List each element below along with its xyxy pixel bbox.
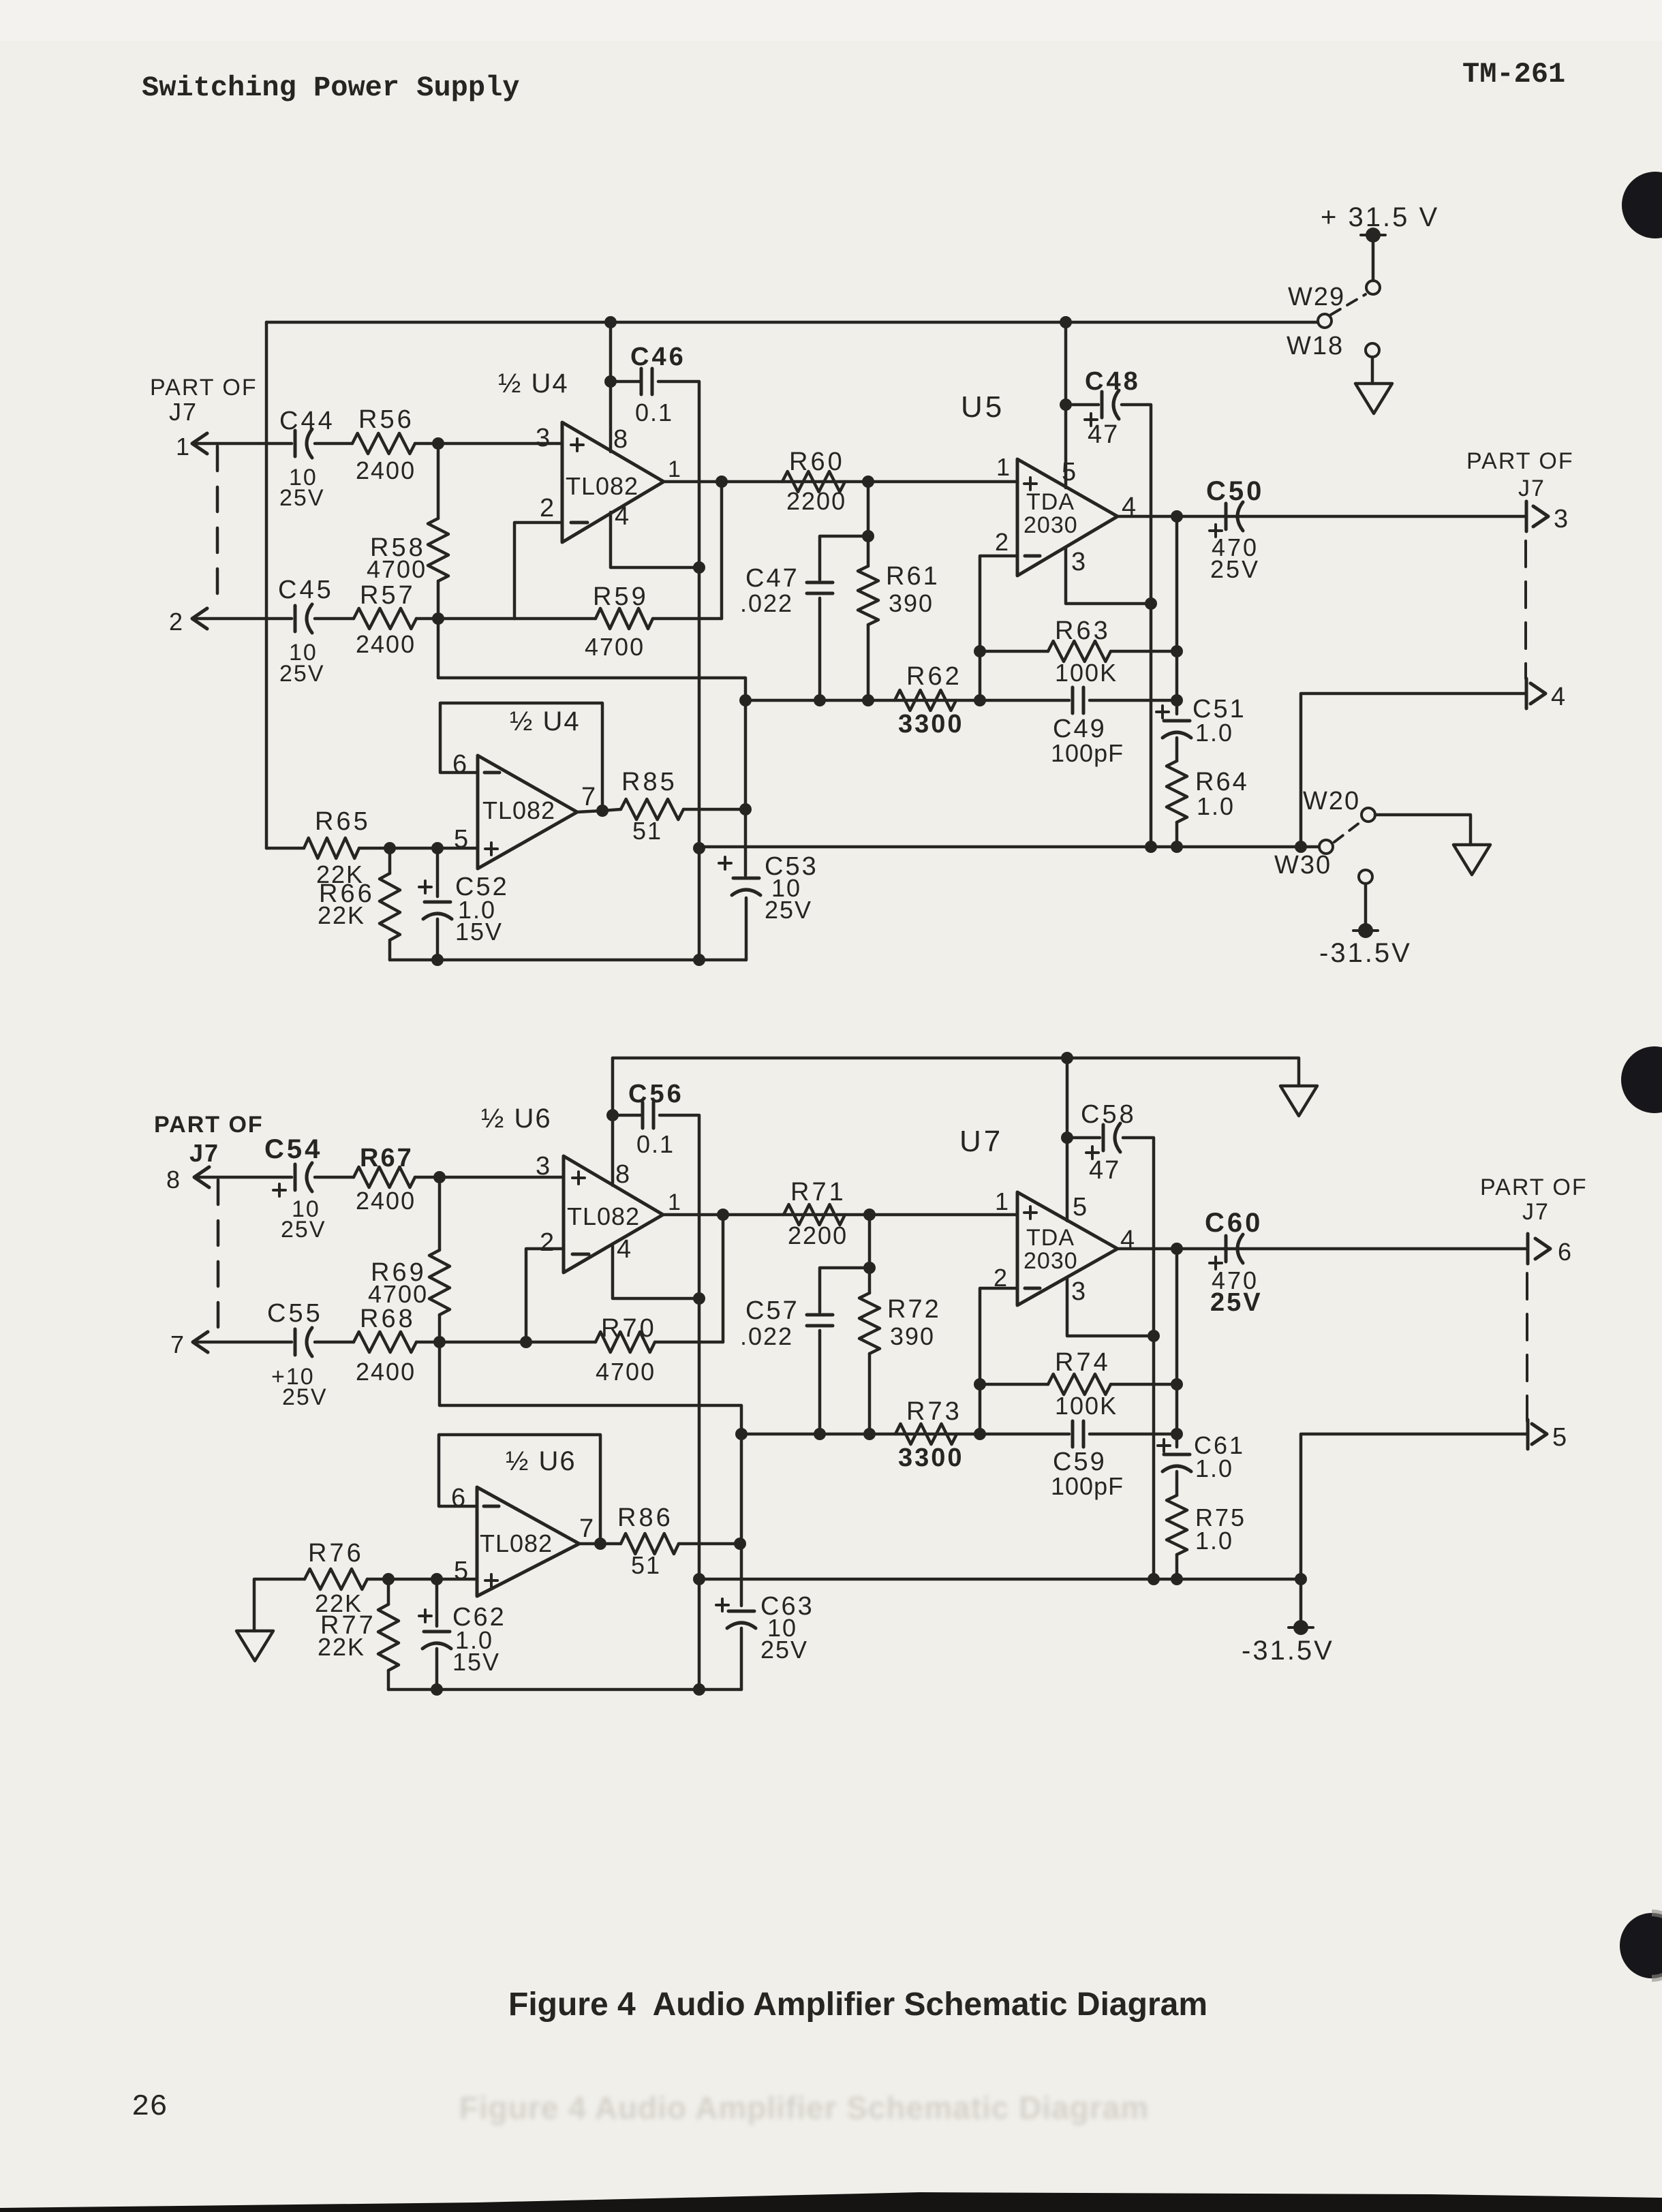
svg-text:6: 6	[451, 1484, 465, 1512]
svg-text:J7: J7	[1518, 476, 1545, 501]
J7 pin 5 connector bar	[1526, 1420, 1530, 1449]
svg-text:2: 2	[995, 528, 1009, 556]
svg-text:C46: C46	[630, 343, 686, 371]
svg-text:2200: 2200	[786, 487, 846, 515]
svg-text:7: 7	[579, 1514, 594, 1543]
svg-text:2: 2	[540, 494, 554, 523]
switch W29 blade (dashed)	[1331, 294, 1366, 315]
svg-text:3: 3	[1071, 1277, 1086, 1306]
wire R86 to C63 branch	[679, 1542, 740, 1546]
junction bypass drop / lower return	[693, 1683, 705, 1696]
resistor R58 (vertical)	[437, 450, 440, 518]
capacitor C60	[1225, 1236, 1228, 1262]
hole punch top	[1622, 172, 1662, 238]
junction R85 / C53 branch	[739, 803, 752, 815]
svg-text:25V: 25V	[1210, 555, 1260, 583]
U4a + input sign	[571, 443, 583, 446]
svg-text:3300: 3300	[898, 1444, 964, 1472]
switch W20 blade (dashed)	[1334, 820, 1363, 842]
resistor R77 (vertical)	[378, 1604, 399, 1670]
junction R76/R77	[382, 1573, 395, 1585]
junction R61 bottom	[862, 694, 874, 706]
junction pin4 / bypass drop	[693, 561, 705, 574]
wire U7 pin2 riser	[980, 1288, 1017, 1434]
wire C47 top lead	[820, 536, 868, 580]
svg-text:R61: R61	[886, 562, 940, 591]
wire U7 pin3 stub	[1067, 1278, 1154, 1336]
resistor R67	[354, 1167, 415, 1187]
J7 pin 4 arrow	[1530, 683, 1545, 704]
wire C44 to R56	[315, 442, 352, 446]
wire R74 right lead	[1111, 1383, 1177, 1386]
wire C63 bottom lead	[740, 1628, 743, 1689]
svg-text:2: 2	[994, 1264, 1007, 1292]
C58 plus sign	[1086, 1151, 1098, 1154]
junction zobel / lower -rail	[1171, 1573, 1183, 1585]
svg-text:TDA: TDA	[1026, 1225, 1075, 1251]
ground below W18	[1355, 384, 1392, 414]
junction output / zobel drop	[1171, 510, 1183, 523]
svg-text:R62: R62	[906, 662, 962, 691]
C51 plus sign	[1156, 711, 1169, 713]
wire lower 0V rail	[613, 1058, 1299, 1086]
ground at R76	[236, 1631, 273, 1661]
wire U5 pin3 stub	[1066, 548, 1151, 604]
J7 pin 4 connector bar	[1525, 679, 1528, 708]
junction R67/R69/pin3	[433, 1171, 446, 1183]
ground at lower rail right	[1280, 1086, 1317, 1116]
wire top +rail	[266, 321, 1318, 324]
svg-text:3: 3	[536, 424, 550, 452]
junction C48 drop at -rail	[1145, 841, 1157, 853]
wire R57 to pin2 riser	[416, 617, 514, 621]
svg-text:R57: R57	[360, 581, 416, 610]
C61 plus sign	[1158, 1444, 1170, 1447]
hole punch bottom	[1620, 1913, 1662, 1978]
wire R76 to U6b pin5	[367, 1578, 477, 1581]
svg-text:1: 1	[995, 1187, 1009, 1215]
wire R63 left lead	[980, 650, 1048, 653]
resistor R72 (vertical)	[868, 1268, 872, 1293]
wire R66 leads	[388, 848, 392, 873]
junction R73/R74/pin2 node	[974, 1428, 986, 1440]
resistor R56	[352, 433, 415, 454]
svg-text:R67: R67	[360, 1144, 414, 1172]
svg-text:.022: .022	[740, 589, 793, 617]
svg-text:51: 51	[631, 1551, 661, 1579]
svg-text:PART OF: PART OF	[1466, 448, 1574, 474]
capacitor C52	[425, 901, 450, 904]
U6a + input sign	[572, 1177, 585, 1179]
capacitor C56	[641, 1102, 645, 1128]
U6b feedback box	[439, 1435, 600, 1541]
wire U6 output to U7 pin1	[663, 1213, 1017, 1217]
wire C63 branch vertical	[740, 1434, 743, 1606]
J7 pin 2 arrow	[192, 608, 207, 629]
svg-text:PART OF: PART OF	[150, 375, 258, 401]
svg-text:0.1: 0.1	[636, 1130, 675, 1158]
hole punch middle	[1621, 1046, 1662, 1113]
U5 - input sign	[1025, 555, 1040, 558]
svg-text:25V: 25V	[765, 896, 812, 924]
wire C56 left lead	[613, 1114, 641, 1117]
junction R63 / output drop	[1171, 645, 1183, 657]
U6b + input sign	[485, 1579, 497, 1582]
junction -rail / J7-4 riser	[1295, 841, 1307, 853]
svg-text:-31.5V: -31.5V	[1242, 1636, 1334, 1666]
resistor R59	[596, 608, 653, 629]
svg-text:.022: .022	[740, 1322, 793, 1350]
junction R68/pin2 riser	[520, 1336, 532, 1348]
svg-text:25V: 25V	[281, 1217, 326, 1243]
wire riser R70 to U6 output	[722, 1215, 725, 1342]
wire C53 bottom lead	[745, 898, 748, 960]
wire R57 node to R59	[514, 617, 596, 621]
svg-text:C56: C56	[628, 1080, 684, 1108]
wire R68 to R70	[416, 1341, 596, 1344]
resistor R60	[782, 471, 845, 492]
svg-text:2030: 2030	[1024, 512, 1078, 538]
svg-text:47: 47	[1088, 420, 1119, 449]
node -31.5V supply terminal (upper)	[1353, 929, 1378, 932]
wire riser to J7 pin 5	[1301, 1434, 1528, 1579]
wire C53 branch vertical	[744, 700, 748, 875]
capacitor C58	[1102, 1125, 1105, 1151]
wire R70 to output riser	[655, 1341, 723, 1344]
svg-text:390: 390	[890, 1322, 935, 1350]
junction pin3 / C48 drop	[1145, 597, 1157, 610]
svg-text:8: 8	[615, 1160, 630, 1189]
wire R76 ground leg	[254, 1579, 305, 1631]
junction pin2 riser / R63	[974, 645, 986, 657]
svg-text:W18: W18	[1287, 332, 1344, 360]
svg-text:3: 3	[1554, 505, 1568, 533]
wire upper -rail	[699, 845, 1318, 849]
junction C48 left node	[1060, 399, 1072, 411]
J7 pin 3 connector bar	[1525, 501, 1528, 531]
svg-text:47: 47	[1089, 1156, 1120, 1185]
junction +rail / U5 pin5	[1060, 316, 1072, 328]
svg-text:4700: 4700	[368, 1280, 428, 1308]
bottom scan edge band	[0, 2192, 1662, 2212]
svg-text:25V: 25V	[1210, 1288, 1263, 1317]
svg-text:C57: C57	[745, 1296, 799, 1325]
svg-text:½ U4: ½ U4	[510, 706, 581, 736]
svg-text:2: 2	[169, 608, 183, 636]
wire R85 to C53 branch	[683, 808, 745, 811]
svg-text:R63: R63	[1055, 617, 1111, 645]
wire C57 bottom lead	[818, 1330, 822, 1434]
wire riser to J7 pin 4	[1301, 694, 1526, 847]
wire U4 pin4 stub	[611, 512, 699, 567]
svg-text:4: 4	[1551, 683, 1565, 711]
svg-text:4700: 4700	[585, 633, 645, 661]
svg-text:25V: 25V	[279, 485, 325, 511]
wire C48 right lead to drop	[1122, 405, 1151, 847]
wire C46 left lead	[611, 380, 640, 384]
svg-text:4700: 4700	[596, 1358, 656, 1386]
svg-text:W30: W30	[1274, 851, 1332, 879]
junction C46 left node	[604, 375, 617, 388]
J7 pin 3 arrow	[1533, 506, 1548, 527]
junction C57/R72 top	[863, 1262, 876, 1274]
svg-text:C47: C47	[745, 564, 799, 593]
svg-text:W29: W29	[1288, 283, 1345, 311]
svg-text:0.1: 0.1	[635, 399, 673, 426]
switch W30 lower contact	[1359, 870, 1372, 884]
svg-text:2400: 2400	[356, 456, 416, 484]
svg-text:1.0: 1.0	[1195, 1454, 1233, 1482]
wire U6 pin8 riser to rail	[611, 1058, 615, 1185]
svg-text:3: 3	[1071, 548, 1086, 576]
svg-text:TM-261: TM-261	[1462, 58, 1565, 91]
svg-text:R74: R74	[1055, 1348, 1111, 1377]
svg-text:W20: W20	[1303, 787, 1360, 815]
C48 plus sign	[1085, 418, 1097, 421]
C54 plus sign	[273, 1189, 286, 1191]
junction C62 / lower return	[431, 1683, 443, 1696]
C50 plus sign	[1210, 529, 1222, 532]
junction bypass drop / bottom return	[693, 954, 705, 966]
U6a - input sign	[572, 1253, 589, 1256]
resistor R63	[1048, 641, 1111, 661]
wire R64 to -rail	[1175, 822, 1179, 847]
svg-text:R70: R70	[601, 1314, 657, 1343]
svg-text:15V: 15V	[455, 918, 503, 946]
junction R65/C52	[431, 842, 444, 854]
J7 pin 5 arrow	[1532, 1424, 1547, 1444]
svg-text:3: 3	[536, 1152, 550, 1181]
junction bypass drop / -rail wire	[693, 842, 705, 854]
junction R56/R58/pin3	[432, 437, 444, 450]
U4b + input sign	[485, 847, 497, 850]
svg-text:J7: J7	[189, 1139, 219, 1167]
capacitor C44	[294, 431, 297, 456]
wire R59 to output riser	[653, 617, 722, 621]
wire R62 row	[745, 699, 1069, 702]
svg-text:5: 5	[454, 1557, 468, 1585]
wire R60 node down to C47/R61	[867, 482, 870, 536]
junction pin4 / bypass drop (lower)	[693, 1292, 705, 1305]
resistor R65	[266, 847, 304, 850]
C52 plus sign	[419, 886, 431, 888]
wire riser R59 to U4 output	[720, 482, 724, 619]
switch W18 lower contact	[1366, 343, 1379, 357]
svg-text:1: 1	[668, 456, 681, 482]
wire C52 bottom lead	[436, 919, 440, 960]
ground below W20	[1453, 845, 1490, 875]
svg-text:8: 8	[166, 1166, 180, 1194]
wire R71 node down to C57/R72	[868, 1215, 872, 1268]
wire R67 to U6 pin3	[415, 1176, 564, 1179]
resistor R62	[895, 690, 956, 711]
svg-text:J7: J7	[169, 398, 198, 426]
svg-text:6: 6	[452, 750, 467, 779]
capacitor C57	[807, 1313, 833, 1317]
svg-text:2: 2	[540, 1228, 554, 1257]
svg-text:4: 4	[617, 1235, 631, 1264]
J7 connector dashed boundary upper left	[216, 446, 219, 610]
switch W20 upper contact	[1361, 808, 1375, 822]
svg-text:C55: C55	[267, 1299, 323, 1328]
capacitor C54	[294, 1164, 297, 1190]
wire R75 to lower -rail	[1175, 1555, 1179, 1579]
wire C54 to R67	[315, 1176, 354, 1179]
C60 plus sign	[1210, 1262, 1222, 1264]
C63 plus sign	[716, 1604, 728, 1606]
svg-text:2200: 2200	[788, 1221, 848, 1249]
resistor R76	[305, 1569, 367, 1589]
svg-text:1.0: 1.0	[1195, 719, 1233, 747]
junction U4 output / R59 feedback	[715, 476, 728, 488]
capacitor C45	[294, 606, 297, 632]
svg-text:J7: J7	[1522, 1199, 1550, 1225]
svg-text:C54: C54	[264, 1134, 322, 1164]
wire R73 row	[741, 1433, 1069, 1436]
capacitor C62	[424, 1630, 450, 1634]
wire C62 bottom lead	[435, 1649, 439, 1689]
resistor R68	[354, 1332, 416, 1352]
J7 pin 6 arrow	[1535, 1239, 1550, 1259]
junction C47 bottom	[814, 694, 826, 706]
wire C62 top lead	[435, 1579, 439, 1626]
op-amp U6b TL082 (lower half)	[477, 1487, 579, 1596]
capacitor C51	[1164, 719, 1190, 723]
junction rail / U7 pin5	[1061, 1052, 1073, 1064]
junction R72 bottom	[863, 1428, 876, 1440]
svg-text:C48: C48	[1085, 367, 1141, 396]
svg-text:1: 1	[668, 1189, 681, 1215]
svg-text:26: 26	[132, 2090, 168, 2124]
wire +31.5V terminal to switch contact	[1372, 235, 1375, 281]
wire R63 right lead	[1111, 650, 1177, 653]
op-amp U5 TDA2030	[1017, 459, 1118, 576]
svg-text:25V: 25V	[760, 1636, 808, 1664]
U6b - input sign	[484, 1505, 499, 1508]
svg-text:2030: 2030	[1024, 1248, 1078, 1274]
wire bottom return (lower channel)	[388, 1688, 741, 1692]
svg-text:C58: C58	[1081, 1100, 1137, 1129]
junction pin2 riser / R74	[974, 1378, 986, 1390]
svg-text:5: 5	[1073, 1193, 1087, 1221]
wire -rail to -31.5V terminal	[1299, 1579, 1303, 1627]
svg-text:R65: R65	[315, 807, 371, 836]
svg-text:2400: 2400	[356, 1358, 416, 1386]
junction lower -rail / J7-5 riser	[1295, 1573, 1307, 1585]
capacitor C49	[1071, 687, 1075, 713]
wire W20 contact to ground	[1375, 815, 1471, 845]
junction U4b output/feedback	[596, 805, 609, 817]
wire +rail left drop to R65	[265, 322, 268, 848]
U7 + input sign	[1024, 1211, 1036, 1214]
svg-text:TL082: TL082	[480, 1529, 553, 1557]
svg-text:C60: C60	[1205, 1208, 1263, 1238]
svg-text:1.0: 1.0	[1197, 792, 1235, 820]
wire lower -rail	[698, 1578, 1301, 1581]
op-amp U6a TL082	[564, 1156, 663, 1273]
junction U6 output / R70 feedback	[717, 1209, 729, 1221]
U7 - input sign	[1025, 1287, 1040, 1290]
capacitor C53	[733, 877, 759, 880]
junction bypass drop / lower -rail	[693, 1573, 705, 1585]
svg-text:TDA: TDA	[1026, 489, 1075, 515]
C53 plus sign	[719, 862, 731, 864]
J7 pin 8 arrow	[194, 1167, 209, 1187]
wire U6 pin2 riser	[526, 1249, 564, 1342]
wire U7 output row	[1118, 1247, 1528, 1251]
op-amp U4b TL082 (lower half)	[478, 755, 577, 869]
svg-text:1: 1	[996, 453, 1010, 481]
switch W30 common contact	[1319, 840, 1333, 854]
svg-text:1: 1	[176, 433, 189, 461]
node -31.5V supply terminal (lower)	[1289, 1626, 1313, 1629]
junction R65/R66	[384, 842, 396, 854]
resistor R66 (vertical)	[380, 873, 400, 940]
J7 connector dashed boundary right lower	[1526, 1273, 1528, 1421]
capacitor C47	[807, 581, 833, 585]
J7 connector dashed boundary lower left	[217, 1180, 220, 1334]
svg-text:R68: R68	[360, 1305, 416, 1333]
junction C49 / output drop	[1171, 694, 1183, 706]
J7 pin 1 arrow	[192, 433, 207, 454]
J7 connector dashed boundary right upper	[1524, 541, 1527, 679]
wire C45 to R57	[315, 617, 354, 621]
node +31.5V supply terminal	[1361, 234, 1385, 236]
svg-text:½ U6: ½ U6	[506, 1446, 576, 1476]
wire output drop / zobel (lower)	[1175, 1249, 1179, 1447]
junction +rail / U4 pin8	[604, 316, 617, 328]
junction R86 / C63 branch	[734, 1538, 746, 1550]
wire C61 to R75	[1175, 1471, 1179, 1495]
junction R57/R58 node	[432, 612, 444, 625]
junction U6b output/feedback	[594, 1538, 606, 1550]
svg-text:3300: 3300	[898, 710, 964, 738]
capacitor C63	[728, 1610, 754, 1613]
op-amp U7 TDA2030	[1017, 1192, 1118, 1305]
svg-text:5: 5	[1552, 1423, 1567, 1452]
junction R73 row left	[735, 1428, 748, 1440]
junction C47/R61 top	[862, 530, 874, 542]
U4b feedback box	[440, 703, 602, 809]
junction C52 / return wire	[431, 954, 444, 966]
svg-text:TL082: TL082	[567, 1202, 640, 1230]
svg-text:100K: 100K	[1055, 659, 1118, 687]
wire R74 left lead	[980, 1383, 1048, 1386]
svg-text:5: 5	[1062, 458, 1076, 486]
capacitor C61	[1164, 1453, 1190, 1457]
svg-text:100K: 100K	[1055, 1392, 1118, 1420]
svg-text:7: 7	[581, 783, 596, 811]
wire C57 top lead	[820, 1268, 870, 1312]
svg-text:6: 6	[1558, 1238, 1571, 1266]
wire pin2 riser	[514, 523, 562, 619]
resistor R74	[1048, 1374, 1111, 1395]
wire C49 right lead	[1090, 699, 1177, 702]
resistor R69 (vertical)	[438, 1184, 442, 1250]
svg-text:51: 51	[632, 817, 662, 845]
svg-text:4: 4	[615, 502, 629, 531]
svg-text:100pF: 100pF	[1051, 739, 1124, 767]
junction U6 output / R72-C57 branch	[863, 1209, 876, 1221]
wire C47 bottom lead	[818, 598, 822, 700]
svg-text:R60: R60	[789, 448, 845, 476]
svg-text:C45: C45	[278, 576, 334, 604]
capacitor C55	[294, 1329, 297, 1355]
svg-text:½ U6: ½ U6	[481, 1104, 552, 1134]
wire R77 leads	[387, 1579, 390, 1604]
junction R62/R63/pin2 node	[974, 694, 986, 706]
resistor R75 (vertical)	[1167, 1495, 1187, 1555]
